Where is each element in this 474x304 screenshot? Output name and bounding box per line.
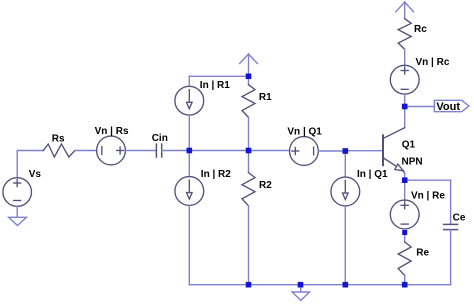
junction node Vout: [402, 104, 408, 110]
svg-text:In | R2: In | R2: [201, 169, 231, 180]
power arrow top right: [396, 2, 414, 19]
svg-text:Cin: Cin: [152, 133, 168, 144]
resistor R1: [242, 85, 255, 118]
resistor Rs: [43, 144, 75, 157]
svg-text:Vn | Rc: Vn | Rc: [416, 57, 450, 68]
wire node D to Q1 base: [345, 150, 382, 152]
svg-text:In | R1: In | R1: [200, 80, 230, 91]
junction rail ground: [298, 282, 304, 288]
svg-text:Rc: Rc: [414, 24, 427, 35]
voltage source Vn|Re: [390, 200, 419, 229]
wire bottom rail left: [189, 284, 248, 286]
wire node C to Vn|Q1: [249, 150, 290, 152]
wire Ce bottom lead: [450, 230, 452, 285]
junction node top arrow R1: [246, 74, 252, 80]
power arrow top middle: [240, 54, 258, 76]
wire node Vout to flag: [405, 106, 435, 108]
junction rail Re: [402, 282, 408, 288]
wire In|R1 bottom lead: [188, 115, 190, 150]
voltage source Vn|Q1: [290, 137, 319, 166]
current source In|R2: [175, 177, 204, 206]
svg-text:Q1: Q1: [402, 139, 416, 150]
svg-text:In | Q1: In | Q1: [357, 169, 388, 180]
svg-text:R1: R1: [259, 92, 272, 103]
wire bottom rail Re to Ce: [405, 284, 451, 286]
capacitor Cin: [156, 144, 161, 157]
svg-text:Re: Re: [416, 247, 429, 258]
wire main horizontal Vs to Rs: [17, 150, 43, 152]
wire In|R2 bottom lead: [188, 205, 190, 284]
ground under Vs: [9, 217, 27, 225]
wire Rc to Vn|Rc: [404, 49, 406, 65]
svg-text:R2: R2: [259, 180, 272, 191]
junction node B Cin: [187, 148, 193, 154]
resistor Re: [398, 242, 411, 276]
junction node C R1 R2: [246, 148, 252, 154]
junction node D In|Q1: [343, 148, 349, 154]
voltage source Vs: [3, 178, 32, 207]
voltage source Vn|Rs: [97, 136, 126, 165]
wire Ce top lead: [450, 180, 452, 224]
current source In|R1: [175, 86, 204, 115]
wire Vn|Rc to node Vout: [404, 94, 406, 106]
wire Vs vertical riser: [16, 151, 18, 178]
resistor R2: [242, 173, 255, 206]
wire node E to Ce branch: [405, 179, 451, 181]
wire node E to Vn|Re: [404, 180, 406, 200]
wire R2 bottom lead: [248, 206, 250, 285]
wire R1 top lead: [248, 76, 250, 84]
svg-text:Rs: Rs: [52, 133, 65, 144]
net label flag Vout: [434, 100, 469, 111]
wire node F to Re: [404, 233, 406, 242]
junction rail In|Q1: [343, 282, 349, 288]
wire Vn|Q1 to node D: [318, 150, 345, 152]
wire emitter to node E: [404, 174, 406, 181]
junction node E emitter: [402, 177, 408, 183]
ground bottom rail: [292, 285, 309, 301]
wire In|Q1 top lead: [344, 151, 346, 177]
wire Rs to Vn|Rs: [75, 150, 97, 152]
svg-text:Ce: Ce: [453, 212, 466, 223]
wire collector lead: [404, 107, 406, 128]
transistor Q1: [383, 128, 405, 174]
capacitor Ce: [444, 224, 458, 229]
wire R1 bottom lead: [248, 117, 250, 150]
wire R2 top lead: [248, 151, 250, 173]
wire In|R2 top lead: [188, 151, 190, 177]
wire top rail In|R1 to arrow node: [189, 75, 248, 77]
wire Vn|Rs to Cin: [125, 150, 156, 152]
svg-text:Vn | Rs: Vn | Rs: [95, 126, 129, 137]
wire Vn|Re to node F: [404, 229, 406, 233]
current source In|Q1: [331, 177, 360, 206]
wire Cin to node B: [162, 150, 190, 152]
svg-text:Vout: Vout: [436, 101, 460, 113]
wire Re bottom lead: [404, 276, 406, 285]
wire In|Q1 bottom lead: [344, 206, 346, 285]
wire bottom rail to ground: [249, 284, 301, 286]
resistor Rc: [398, 19, 411, 50]
wire Vs to ground: [16, 206, 18, 217]
junction node F Vn|Re Re: [402, 230, 407, 235]
svg-text:Vn | Q1: Vn | Q1: [287, 126, 322, 137]
wire bottom rail In|Q1 to Re: [345, 284, 404, 286]
junction rail R2: [246, 282, 252, 288]
voltage source Vn|Rc: [390, 65, 419, 94]
svg-text:NPN: NPN: [402, 156, 423, 167]
wire In|R1 top lead: [188, 76, 190, 86]
svg-text:Vn | Re: Vn | Re: [411, 191, 445, 202]
svg-text:Vs: Vs: [29, 169, 42, 180]
wire bottom rail ground to In|Q1: [301, 284, 346, 286]
wire node B to node C: [189, 150, 248, 152]
